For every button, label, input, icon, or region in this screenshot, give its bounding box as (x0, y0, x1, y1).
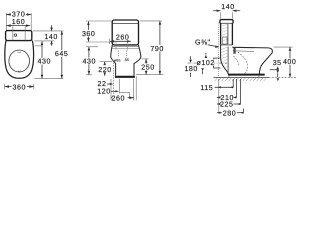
svg-text:430: 430 (83, 58, 97, 66)
svg-text:360: 360 (82, 30, 96, 38)
svg-text:120: 120 (97, 88, 111, 96)
svg-text:260: 260 (116, 34, 130, 42)
svg-text:260: 260 (112, 94, 126, 102)
svg-text:35: 35 (273, 59, 282, 67)
svg-text:180: 180 (184, 65, 198, 73)
svg-text:400: 400 (283, 58, 297, 66)
svg-text:160: 160 (12, 18, 26, 26)
svg-text:140: 140 (221, 3, 235, 11)
svg-text:220: 220 (98, 66, 112, 74)
svg-text:790: 790 (150, 45, 164, 53)
svg-text:85: 85 (125, 58, 129, 62)
svg-text:ø85: ø85 (114, 58, 121, 62)
svg-text:280: 280 (223, 109, 237, 117)
svg-text:430: 430 (38, 58, 52, 66)
svg-text:250: 250 (141, 64, 155, 72)
svg-text:ø102: ø102 (197, 59, 215, 67)
svg-text:360: 360 (13, 83, 27, 91)
svg-text:115: 115 (200, 84, 213, 92)
svg-text:645: 645 (55, 50, 69, 58)
svg-text:370: 370 (12, 10, 26, 18)
svg-text:225: 225 (220, 101, 234, 109)
svg-text:140: 140 (44, 33, 58, 41)
